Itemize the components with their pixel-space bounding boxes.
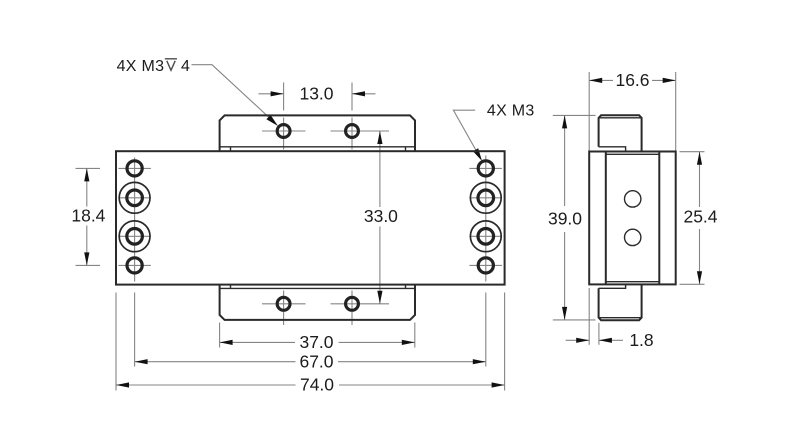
front top tab step tick left	[230, 147, 232, 151]
right col small hole bottom	[478, 258, 493, 273]
centerline top tab hole A horizontal	[262, 130, 306, 132]
centerline left col hole 1 horizontal	[118, 167, 150, 169]
centerline top tab hole B vertical	[351, 118, 353, 150]
dimension 74.0 line and arrows	[116, 384, 296, 386]
left col counterbore hole upper outer	[119, 182, 150, 213]
centerline bottom tab hole D vertical	[351, 291, 353, 326]
side view inner plate top edge	[606, 153, 660, 155]
front bottom tab step tick right	[405, 285, 407, 289]
front bottom tab outline	[220, 285, 415, 320]
bottom tab hole C	[277, 297, 290, 310]
left col small hole bottom	[127, 258, 142, 273]
dimension 16.6 extension lines	[588, 72, 590, 151]
dimension 16.6 line and arrows	[589, 79, 613, 81]
svg-text:25.4: 25.4	[683, 207, 717, 227]
callout 4X M3 leader	[453, 110, 479, 156]
centerline right col hole 1 horizontal	[469, 167, 502, 169]
dimension 25.4 extension lines	[680, 151, 705, 153]
side view top tab outline	[599, 115, 642, 151]
top tab hole B	[346, 125, 359, 138]
svg-text:33.0: 33.0	[364, 206, 398, 226]
left col small hole top	[127, 161, 142, 176]
right col counterbore hole upper outer	[470, 182, 501, 213]
dimension 39.0 line and arrows	[564, 115, 566, 206]
svg-text:16.6: 16.6	[615, 70, 649, 90]
centerline top tab hole A vertical	[283, 118, 285, 150]
front body outline	[116, 151, 505, 284]
left col counterbore hole lower outer	[119, 221, 150, 252]
centerline left col hole 2 horizontal	[118, 197, 150, 199]
centerline right hole column	[485, 156, 487, 282]
dimension 74.0 extension lines	[115, 293, 117, 391]
dimension 25.4 line and arrows	[699, 152, 701, 207]
centerline top tab hole B horizontal	[331, 130, 390, 132]
right col counterbore hole lower outer	[470, 221, 501, 252]
svg-text:67.0: 67.0	[299, 351, 333, 371]
side view bottom tab notch	[599, 284, 626, 288]
dimension 13.0 line and arrows	[259, 93, 284, 95]
dimension 67.0 line and arrows	[135, 361, 296, 363]
dimension 18.4 extension lines	[76, 167, 101, 169]
centerline bottom tab hole C horizontal	[262, 303, 306, 305]
front bottom tab step tick left	[230, 285, 232, 289]
dimension 18.4 line and arrows	[86, 168, 88, 206]
right col small hole top	[478, 161, 493, 176]
front bottom tab step line	[220, 287, 415, 289]
dimension 33.0 line and arrows	[379, 131, 381, 207]
front top tab step line	[220, 146, 415, 148]
dimension 13.0 extension lines	[283, 83, 285, 111]
svg-text:37.0: 37.0	[299, 332, 333, 352]
svg-text:4X M3: 4X M3	[487, 103, 535, 120]
svg-text:18.4: 18.4	[71, 206, 105, 226]
side view hole upper	[625, 191, 641, 207]
depth symbol	[165, 59, 177, 71]
svg-text:39.0: 39.0	[548, 209, 582, 229]
dimension 67.0 extension lines	[134, 293, 136, 367]
centerline right col hole 2 horizontal	[469, 197, 502, 199]
dimension 1.8 line and arrows	[566, 339, 590, 341]
centerline right col hole 4 horizontal	[469, 264, 502, 266]
front top tab outline	[220, 115, 415, 151]
side view bottom tab bottom face line	[599, 317, 642, 319]
dimension 37.0 extension lines	[219, 323, 221, 348]
svg-text:74.0: 74.0	[300, 375, 334, 395]
front top tab step tick right	[405, 147, 407, 151]
dimension 39.0 extension lines	[553, 114, 596, 116]
svg-text:4X M3: 4X M3	[117, 58, 165, 75]
side view top tab top face line	[599, 117, 642, 119]
centerline left col hole 3 horizontal	[118, 235, 150, 237]
centerline right col hole 3 horizontal	[469, 235, 502, 237]
right col counterbore hole upper inner	[478, 190, 494, 206]
centerline left hole column	[134, 158, 136, 282]
svg-text:4: 4	[181, 58, 190, 75]
dimension 37.0 line and arrows	[220, 341, 295, 343]
side view inner plate bottom edge	[606, 281, 660, 283]
side view main rect	[589, 152, 676, 285]
side view top tab notch	[599, 147, 626, 152]
side view hole lower	[625, 229, 641, 245]
centerline bottom tab hole D horizontal	[331, 303, 390, 305]
side view bottom tab outline	[599, 284, 642, 320]
centerline bottom tab hole C vertical	[283, 291, 285, 326]
left col counterbore hole lower inner	[127, 229, 143, 245]
right col counterbore hole lower inner	[478, 229, 494, 245]
callout 4X M3 depth 4 leader	[192, 65, 275, 123]
side view inner vertical right	[658, 152, 660, 285]
top tab hole A	[277, 125, 290, 138]
svg-text:1.8: 1.8	[629, 330, 653, 350]
svg-text:13.0: 13.0	[299, 84, 333, 104]
bottom tab hole D	[346, 297, 359, 310]
dimension 1.8 extension lines	[588, 288, 590, 345]
centerline left col hole 4 horizontal	[118, 264, 150, 266]
left col counterbore hole upper inner	[127, 190, 143, 206]
side view inner vertical left	[605, 152, 607, 285]
